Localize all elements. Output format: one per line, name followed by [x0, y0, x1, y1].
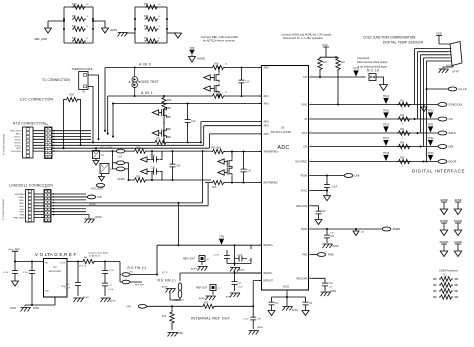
svg-text:6: 6 — [63, 256, 64, 258]
svg-text:DOUT/RDY: DOUT/RDY — [296, 162, 308, 164]
svg-text:for AD7124: for AD7124 — [89, 255, 101, 258]
testpoint — [427, 109, 434, 119]
jumper LK2 — [91, 149, 125, 158]
U3 right pins — [296, 75, 313, 280]
wire — [227, 244, 251, 264]
ground AVSS — [191, 267, 208, 271]
wire CJ link — [427, 61, 449, 89]
ground — [324, 196, 331, 201]
power VDD — [436, 32, 442, 45]
svg-text:Connector:: Connector: — [357, 56, 370, 60]
wire — [34, 194, 44, 218]
svg-text:R22: R22 — [323, 62, 328, 64]
ground AVSS — [101, 298, 117, 303]
svg-text:V O LTA G E R E F: V O LTA G E R E F — [35, 252, 77, 257]
svg-text:AIN5: AIN5 — [264, 133, 270, 136]
ground AVSS — [321, 290, 337, 296]
ground AVSS — [162, 286, 176, 293]
capacitor C28 — [170, 151, 182, 180]
wire — [376, 77, 384, 84]
transistor Q4 — [162, 128, 167, 138]
svg-text:AVDD: AVDD — [89, 203, 96, 206]
resistor R23 — [336, 57, 346, 106]
capacitor C39 — [269, 300, 279, 311]
svg-text:TP9: TP9 — [219, 235, 224, 239]
wire — [112, 150, 117, 169]
wire — [126, 18, 168, 33]
svg-text:RTD+/EXC: RTD+/EXC — [11, 131, 22, 133]
svg-text:R29: R29 — [162, 316, 167, 318]
svg-text:C30: C30 — [247, 170, 252, 173]
label THERMOCOUPLE — [71, 68, 92, 71]
svg-text:C20: C20 — [191, 120, 196, 123]
wire loadcell bus — [52, 193, 87, 215]
capacitor C32 — [312, 206, 326, 220]
resistor R34 — [397, 143, 411, 153]
switch S1 — [204, 75, 214, 80]
wire — [93, 21, 105, 28]
svg-text:AGND: AGND — [197, 57, 205, 61]
svg-text:2: 2 — [261, 102, 262, 104]
resistor R51 — [433, 282, 458, 287]
svg-text:AVSS: AVSS — [10, 307, 16, 310]
svg-text:VR1: VR1 — [126, 305, 131, 308]
wire RTD bus — [52, 130, 91, 152]
svg-text:AVSS: AVSS — [83, 296, 89, 299]
testpoint TP9 — [219, 235, 225, 245]
label COLD JUNCTION COMPENSATION — [363, 36, 424, 45]
svg-text:R63: R63 — [72, 37, 77, 40]
svg-text:SNS/TALB: SNS/TALB — [15, 193, 26, 196]
resistor R28 — [65, 94, 79, 102]
testpoint TP17 — [383, 136, 390, 146]
svg-text:2: 2 — [311, 103, 312, 105]
wire AIN2 — [112, 103, 262, 105]
ground AVSS — [10, 307, 39, 312]
svg-text:R33: R33 — [400, 129, 405, 131]
label USB Provisions — [439, 269, 458, 277]
svg-text:C28: C28 — [176, 165, 181, 168]
transistor Q3 — [162, 108, 167, 118]
svg-text:USB Provisions: USB Provisions — [439, 269, 458, 273]
wire AIN1 — [108, 95, 211, 97]
note compensation — [88, 252, 109, 258]
svg-text:VOUT: VOUT — [60, 263, 66, 265]
svg-text:DIN: DIN — [304, 147, 308, 149]
svg-text:1uF: 1uF — [329, 287, 333, 289]
capacitor C34 — [102, 268, 115, 281]
wire — [88, 75, 99, 142]
resistor R32 — [397, 115, 411, 125]
connector P2 header — [44, 186, 51, 222]
label REFIN(-) — [158, 279, 176, 283]
wire staircase AIN5 — [91, 134, 262, 148]
svg-text:AVSS: AVSS — [283, 286, 289, 289]
node — [420, 146, 422, 148]
label REFIN(+) — [128, 266, 147, 274]
wire CLK — [312, 76, 366, 78]
connector CS — [438, 117, 452, 121]
svg-text:DIGITAL TEMP SENSOR: DIGITAL TEMP SENSOR — [383, 41, 424, 45]
ground — [12, 281, 19, 286]
ground — [439, 66, 454, 74]
wire — [14, 261, 44, 263]
testpoint TP13 — [353, 67, 360, 77]
ground AVSS — [230, 268, 245, 272]
capacitor C44 — [324, 229, 335, 243]
svg-text:REF REF: REF REF — [135, 285, 145, 287]
svg-text:REGCAPA: REGCAPA — [296, 277, 308, 280]
svg-text:DGND: DGND — [454, 219, 462, 223]
P3 pin labels — [3, 131, 23, 155]
wire — [125, 150, 211, 152]
svg-text:R23: R23 — [341, 62, 346, 64]
power DGND — [454, 219, 462, 236]
capacitor C77 — [102, 281, 114, 297]
svg-text:4.7 V: 4.7 V — [162, 272, 168, 275]
resistor R52 — [433, 288, 458, 293]
connector CJ_LK — [448, 87, 467, 91]
label LOADCELL CONNECTION — [9, 184, 53, 188]
svg-text:2: 2 — [48, 256, 49, 258]
label REF+ EXT — [183, 258, 195, 261]
ground AVSS — [199, 296, 216, 300]
jumper P2B — [86, 195, 102, 199]
resistor R22 — [318, 57, 328, 78]
label AIN1 — [141, 91, 153, 95]
label CJC CONNECTION — [20, 98, 53, 102]
testpoint TP6 — [189, 46, 195, 55]
switch S7 — [218, 159, 227, 164]
svg-text:CS: CS — [449, 117, 453, 121]
resistor R35 — [397, 158, 411, 168]
svg-text:2: 2 — [311, 131, 312, 133]
label AVSS — [446, 65, 452, 68]
svg-text:DOUT: DOUT — [449, 160, 457, 164]
svg-text:AGND: AGND — [454, 240, 462, 244]
svg-text:2: 2 — [261, 150, 262, 152]
label REFOUT — [174, 299, 184, 302]
power 3.3V — [322, 43, 329, 57]
svg-text:R61: R61 — [72, 15, 77, 18]
wire — [426, 88, 428, 163]
label MCLK — [367, 69, 380, 73]
svg-text:REFOUT: REFOUT — [264, 281, 274, 283]
ground AVSS — [226, 293, 240, 299]
svg-text:R31: R31 — [400, 101, 405, 103]
svg-text:U3: U3 — [281, 126, 285, 130]
svg-text:DVDD: DVDD — [301, 229, 308, 231]
connector SYNC/CLK — [438, 103, 463, 107]
svg-text:2: 2 — [261, 181, 262, 183]
svg-text:TP15: TP15 — [383, 109, 390, 113]
svg-text:0.1uF: 0.1uF — [65, 288, 71, 290]
resistor R62 — [72, 25, 89, 31]
wire row DOUT — [312, 161, 438, 163]
svg-text:AVDD: AVDD — [393, 227, 401, 231]
svg-text:2: 2 — [311, 276, 312, 278]
svg-text:REF+ EXT: REF+ EXT — [183, 258, 195, 261]
svg-text:AVSS: AVSS — [162, 286, 168, 289]
label SURF — [118, 177, 126, 181]
svg-text:AIN3: AIN3 — [264, 121, 270, 124]
capacitor C19 — [239, 67, 251, 98]
connector DIN — [438, 145, 453, 149]
IC U3 labels — [271, 126, 292, 152]
label DIGITAL INTERFACE — [412, 169, 465, 174]
wire — [25, 297, 55, 307]
power AGND — [454, 240, 462, 257]
svg-text:49.9 1%: 49.9 1% — [79, 266, 87, 268]
svg-text:4.7uF: 4.7uF — [3, 272, 9, 274]
svg-text:SCLK: SCLK — [301, 133, 307, 135]
resistor R38 — [133, 176, 147, 183]
wire — [234, 264, 236, 267]
switch S8 — [218, 170, 227, 175]
wire — [125, 163, 130, 181]
svg-text:AIN1: AIN1 — [264, 95, 270, 98]
svg-text:REGCAPD: REGCAPD — [296, 205, 308, 208]
svg-text:10nF: 10nF — [332, 187, 338, 189]
resistor R65 — [144, 15, 161, 21]
jumper LK8 — [120, 273, 157, 277]
P1 pin labels — [2, 193, 25, 220]
connector SCLK — [438, 131, 456, 135]
testpoint — [353, 229, 365, 236]
ground AVSS — [249, 326, 264, 335]
connector DOUT — [438, 160, 457, 164]
wire — [105, 68, 113, 137]
jumper LK10 — [178, 283, 182, 291]
transistor Q6 — [227, 166, 233, 183]
svg-text:SYNC/CLK: SYNC/CLK — [449, 103, 463, 107]
svg-text:AIN0: AIN0 — [264, 67, 270, 70]
svg-text:TP21: TP21 — [427, 123, 434, 127]
svg-text:CJ_LK: CJ_LK — [459, 87, 468, 91]
testpoint TP15 — [383, 109, 390, 119]
wire DVDD row — [312, 228, 382, 230]
svg-text:TP17: TP17 — [383, 136, 390, 140]
connector J3 MCLK — [369, 74, 376, 81]
post J6 — [199, 256, 210, 266]
ground AVSS — [110, 28, 127, 37]
resistor R26 — [162, 96, 172, 110]
note text — [281, 33, 332, 41]
node — [171, 305, 173, 307]
transistor Q1 — [214, 67, 220, 83]
svg-text:2: 2 — [311, 75, 312, 77]
svg-text:2: 2 — [311, 253, 312, 255]
capacitor C24 — [151, 155, 163, 163]
node — [417, 132, 419, 134]
svg-text:AIN6/REFIN2+: AIN6/REFIN2+ — [264, 151, 280, 154]
resistor R36 — [154, 138, 168, 145]
svg-text:ADC internal clock output: ADC internal clock output — [357, 60, 388, 64]
svg-text:4.7uF: 4.7uF — [109, 270, 115, 272]
jumper LK11 — [170, 290, 182, 300]
power AGND — [189, 55, 206, 63]
svg-text:RTD-: RTD- — [16, 148, 21, 150]
svg-text:TP20: TP20 — [427, 109, 434, 113]
svg-text:AVSS: AVSS — [330, 290, 336, 293]
svg-text:0.1uF: 0.1uF — [23, 272, 29, 274]
wire — [128, 151, 211, 181]
capacitor C41 — [312, 278, 333, 291]
svg-text:RTD CONNECTION: RTD CONNECTION — [13, 122, 46, 126]
svg-text:RTD-/EXC: RTD-/EXC — [11, 151, 22, 153]
svg-text:LK2: LK2 — [118, 156, 123, 159]
wire — [119, 262, 122, 275]
svg-text:THERMOCOUPLE: THERMOCOUPLE — [71, 68, 92, 71]
label AIN0 — [139, 63, 151, 67]
svg-text:0.1uF: 0.1uF — [237, 255, 243, 257]
svg-text:P2B: P2B — [97, 196, 102, 199]
svg-text:SP-4P: SP-4P — [452, 71, 459, 74]
svg-text:R34: R34 — [400, 143, 405, 145]
svg-text:VDD: VDD — [436, 32, 442, 36]
wire — [86, 150, 204, 203]
svg-text:0.1uF: 0.1uF — [238, 287, 244, 289]
resistor R29 — [162, 306, 174, 330]
svg-text:CLK: CLK — [303, 77, 308, 79]
resistor R43 — [211, 180, 225, 189]
svg-text:2: 2 — [311, 189, 312, 191]
svg-text:R43: R43 — [212, 186, 217, 189]
svg-text:TP6: TP6 — [190, 46, 195, 50]
inductor L3 — [100, 164, 113, 174]
wire staircase AIN4 — [91, 126, 262, 146]
testpoint TP18 — [383, 151, 390, 161]
wire — [180, 273, 262, 281]
ground AVSS — [168, 332, 184, 337]
svg-text:REFIN1-: REFIN1- — [264, 273, 273, 275]
ground REF_GND — [35, 28, 52, 41]
resistor R40 — [133, 146, 147, 153]
wire — [64, 100, 81, 149]
testpoint — [427, 123, 434, 133]
wire — [320, 56, 338, 58]
jumper LK5 — [91, 183, 105, 190]
capacitor C20 — [185, 104, 196, 144]
wire AIN1b — [224, 95, 262, 97]
svg-text:AVD_SURF: AVD_SURF — [91, 187, 104, 190]
resistor R60 — [72, 3, 89, 9]
svg-text:AVSS: AVSS — [258, 326, 264, 329]
svg-text:0.1uF: 0.1uF — [214, 255, 220, 257]
svg-text:2: 2 — [261, 132, 262, 134]
svg-text:2: 2 — [311, 204, 312, 206]
transistor Q2 — [214, 84, 220, 97]
wire — [48, 18, 94, 30]
svg-text:P1 SCREW TERMINAL: P1 SCREW TERMINAL — [2, 198, 5, 220]
resistor R66 — [144, 25, 161, 31]
svg-text:2: 2 — [261, 66, 262, 68]
wire — [78, 261, 120, 281]
svg-text:RTD1-: RTD1- — [15, 139, 22, 141]
svg-text:Connect REF_GND and AGND: Connect REF_GND and AGND — [201, 35, 238, 39]
svg-text:R60: R60 — [72, 3, 77, 6]
wire — [312, 190, 327, 192]
capacitor C43 — [234, 255, 253, 263]
svg-text:LK6: LK6 — [355, 174, 360, 178]
capacitor C30 — [241, 151, 252, 184]
power +Vin_REF — [8, 248, 20, 262]
ground — [93, 159, 99, 166]
svg-text:NOISE TEST: NOISE TEST — [138, 80, 159, 84]
resistor R41 — [211, 147, 225, 154]
svg-text:RTD+: RTD+ — [16, 134, 22, 136]
wire — [86, 183, 208, 206]
svg-text:R67: R67 — [144, 37, 149, 40]
svg-text:R E FIN (+): R E FIN (+) — [128, 266, 147, 270]
resistor R61 — [72, 15, 89, 21]
resistor R33 — [397, 129, 411, 139]
svg-text:ADC: ADC — [278, 145, 290, 151]
transistor Q5 — [227, 151, 233, 169]
resistor R64 — [144, 3, 161, 9]
svg-text:RTD2+: RTD2+ — [15, 142, 23, 144]
wire sensor bus — [415, 49, 449, 58]
jumper LK9 — [120, 275, 145, 287]
wire — [272, 293, 306, 300]
svg-text:AVSS: AVSS — [191, 268, 197, 271]
wire row SCLK — [312, 132, 438, 134]
capacitor C40 — [303, 300, 313, 311]
U3 left pins — [259, 66, 279, 283]
capacitor C31 — [65, 280, 81, 296]
connector VR1 — [126, 304, 197, 308]
svg-text:CJC CONNECTION: CJC CONNECTION — [20, 98, 53, 102]
IC U2 ADR4525 — [44, 256, 68, 298]
svg-text:PDSW: PDSW — [301, 176, 309, 178]
svg-text:SIG+: SIG+ — [20, 206, 26, 208]
svg-text:1uF: 1uF — [330, 233, 334, 235]
connector LK6 — [312, 174, 360, 178]
ground AVSS — [74, 296, 90, 302]
svg-text:AIN7/REFIN2-: AIN7/REFIN2- — [264, 182, 279, 185]
svg-text:PWR+: PWR+ — [18, 197, 25, 199]
svg-text:SIG-: SIG- — [20, 209, 25, 211]
wire row DIN — [312, 146, 438, 148]
svg-text:AVSS: AVSS — [177, 332, 183, 335]
svg-text:R32: R32 — [400, 115, 405, 117]
resistor R67 — [144, 37, 161, 43]
svg-text:Disconnect for +/-1.65V operat: Disconnect for +/-1.65V operation — [283, 36, 324, 40]
svg-text:P3 SCREW TERMINAL: P3 SCREW TERMINAL — [3, 133, 6, 155]
svg-text:2: 2 — [261, 120, 262, 122]
connector J5 thermocouple — [79, 71, 88, 93]
resistor R21 — [79, 258, 96, 268]
svg-text:AVSS: AVSS — [199, 297, 205, 300]
resistor R24 — [211, 63, 228, 70]
svg-text:Compensation Spike: Compensation Spike — [88, 252, 109, 255]
label AVDD — [89, 203, 96, 206]
node — [414, 118, 416, 120]
capacitor C36 — [23, 262, 35, 307]
connector PSW — [312, 253, 334, 257]
svg-text:Connect AVDD and AGND for 3.3V: Connect AVDD and AGND for 3.3V supply — [281, 33, 332, 37]
testpoint — [427, 136, 434, 146]
svg-text:AVSS: AVSS — [239, 269, 245, 272]
wire — [86, 215, 89, 219]
label RTD CONNECTION — [13, 122, 46, 126]
svg-text:AVSS: AVSS — [292, 309, 298, 312]
ground — [302, 311, 309, 316]
wire — [64, 7, 93, 43]
wire — [234, 271, 263, 276]
svg-text:+Vin_REF: +Vin_REF — [8, 248, 20, 252]
svg-text:REF-: REF- — [20, 212, 25, 214]
